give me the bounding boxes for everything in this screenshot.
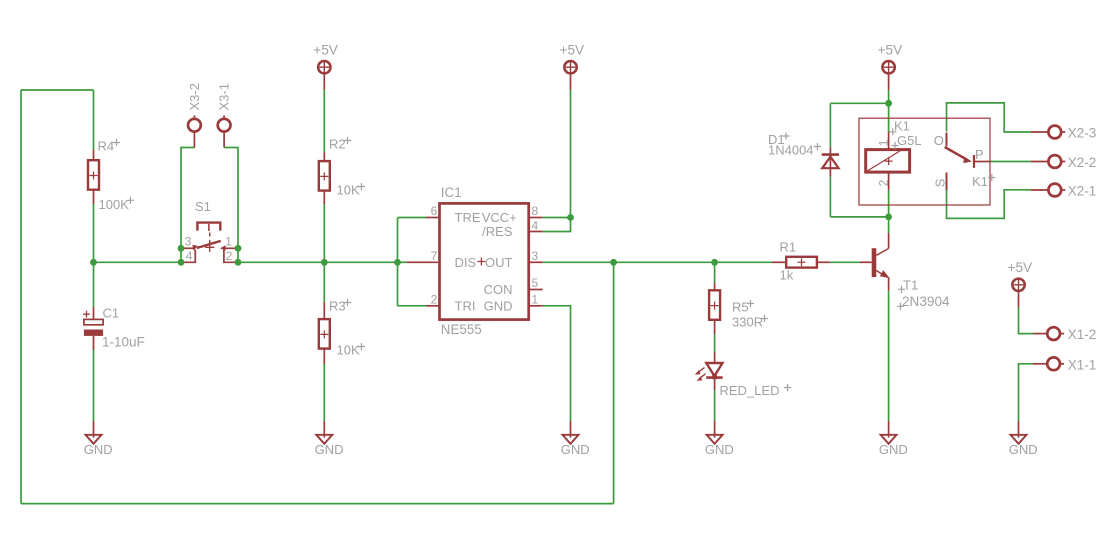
- svg-text:2: 2: [877, 179, 891, 186]
- svg-text:R5: R5: [732, 300, 749, 315]
- svg-text:R4: R4: [98, 139, 115, 154]
- svg-text:RED_LED: RED_LED: [720, 383, 780, 398]
- svg-text:X3-1: X3-1: [217, 83, 232, 110]
- svg-text:GND: GND: [84, 442, 113, 457]
- svg-text:P: P: [975, 147, 984, 162]
- svg-text:CON: CON: [484, 282, 513, 297]
- svg-text:/RES: /RES: [482, 224, 513, 239]
- svg-text:1N4004: 1N4004: [768, 142, 814, 157]
- svg-text:X2-1: X2-1: [1068, 184, 1097, 199]
- svg-text:DIS: DIS: [455, 255, 477, 270]
- svg-text:O: O: [934, 133, 944, 148]
- svg-text:5: 5: [532, 276, 539, 290]
- svg-text:R1: R1: [780, 240, 797, 255]
- svg-text:330R: 330R: [732, 315, 763, 330]
- svg-text:2: 2: [226, 249, 233, 263]
- svg-text:2: 2: [431, 293, 438, 307]
- svg-text:X1-1: X1-1: [1068, 357, 1097, 372]
- svg-text:R2: R2: [329, 137, 346, 152]
- svg-text:4: 4: [532, 218, 539, 232]
- svg-text:X3-2: X3-2: [187, 83, 202, 110]
- svg-text:4: 4: [186, 249, 193, 263]
- svg-text:+5V: +5V: [560, 43, 585, 58]
- svg-text:3: 3: [532, 249, 539, 263]
- svg-text:1: 1: [877, 139, 891, 146]
- svg-text:1k: 1k: [780, 268, 794, 283]
- svg-text:OUT: OUT: [485, 255, 513, 270]
- svg-text:7: 7: [431, 249, 438, 263]
- svg-text:1-10uF: 1-10uF: [102, 334, 145, 349]
- svg-text:GND: GND: [705, 442, 734, 457]
- svg-text:1: 1: [532, 293, 539, 307]
- svg-text:3: 3: [185, 235, 192, 249]
- svg-text:GND: GND: [879, 442, 908, 457]
- svg-text:10K: 10K: [337, 183, 360, 198]
- svg-text:8: 8: [532, 204, 539, 218]
- svg-text:+5V: +5V: [878, 43, 903, 58]
- svg-text:GND: GND: [484, 299, 513, 314]
- svg-text:VCC+: VCC+: [482, 210, 517, 225]
- svg-text:C1: C1: [103, 306, 120, 321]
- svg-text:K1: K1: [972, 174, 988, 189]
- svg-text:TRE: TRE: [455, 210, 481, 225]
- svg-text:GND: GND: [561, 442, 590, 457]
- svg-text:2N3904: 2N3904: [902, 294, 950, 309]
- svg-text:1: 1: [225, 235, 232, 249]
- svg-text:X2-2: X2-2: [1068, 155, 1097, 170]
- svg-text:G5L: G5L: [897, 133, 922, 148]
- svg-text:IC1: IC1: [441, 185, 462, 200]
- svg-text:+5V: +5V: [313, 43, 338, 58]
- svg-text:6: 6: [431, 204, 438, 218]
- svg-text:R3: R3: [329, 299, 346, 314]
- svg-text:TRI: TRI: [455, 299, 476, 314]
- svg-text:NE555: NE555: [441, 322, 482, 337]
- svg-text:10K: 10K: [337, 343, 360, 358]
- svg-text:X2-3: X2-3: [1068, 126, 1097, 141]
- svg-text:+5V: +5V: [1008, 260, 1033, 275]
- svg-text:S: S: [933, 178, 948, 187]
- svg-text:GND: GND: [315, 442, 344, 457]
- svg-text:T1: T1: [903, 278, 918, 293]
- svg-text:X1-2: X1-2: [1068, 327, 1097, 342]
- svg-text:100K: 100K: [99, 197, 130, 212]
- svg-text:S1: S1: [195, 199, 211, 214]
- svg-text:GND: GND: [1009, 442, 1038, 457]
